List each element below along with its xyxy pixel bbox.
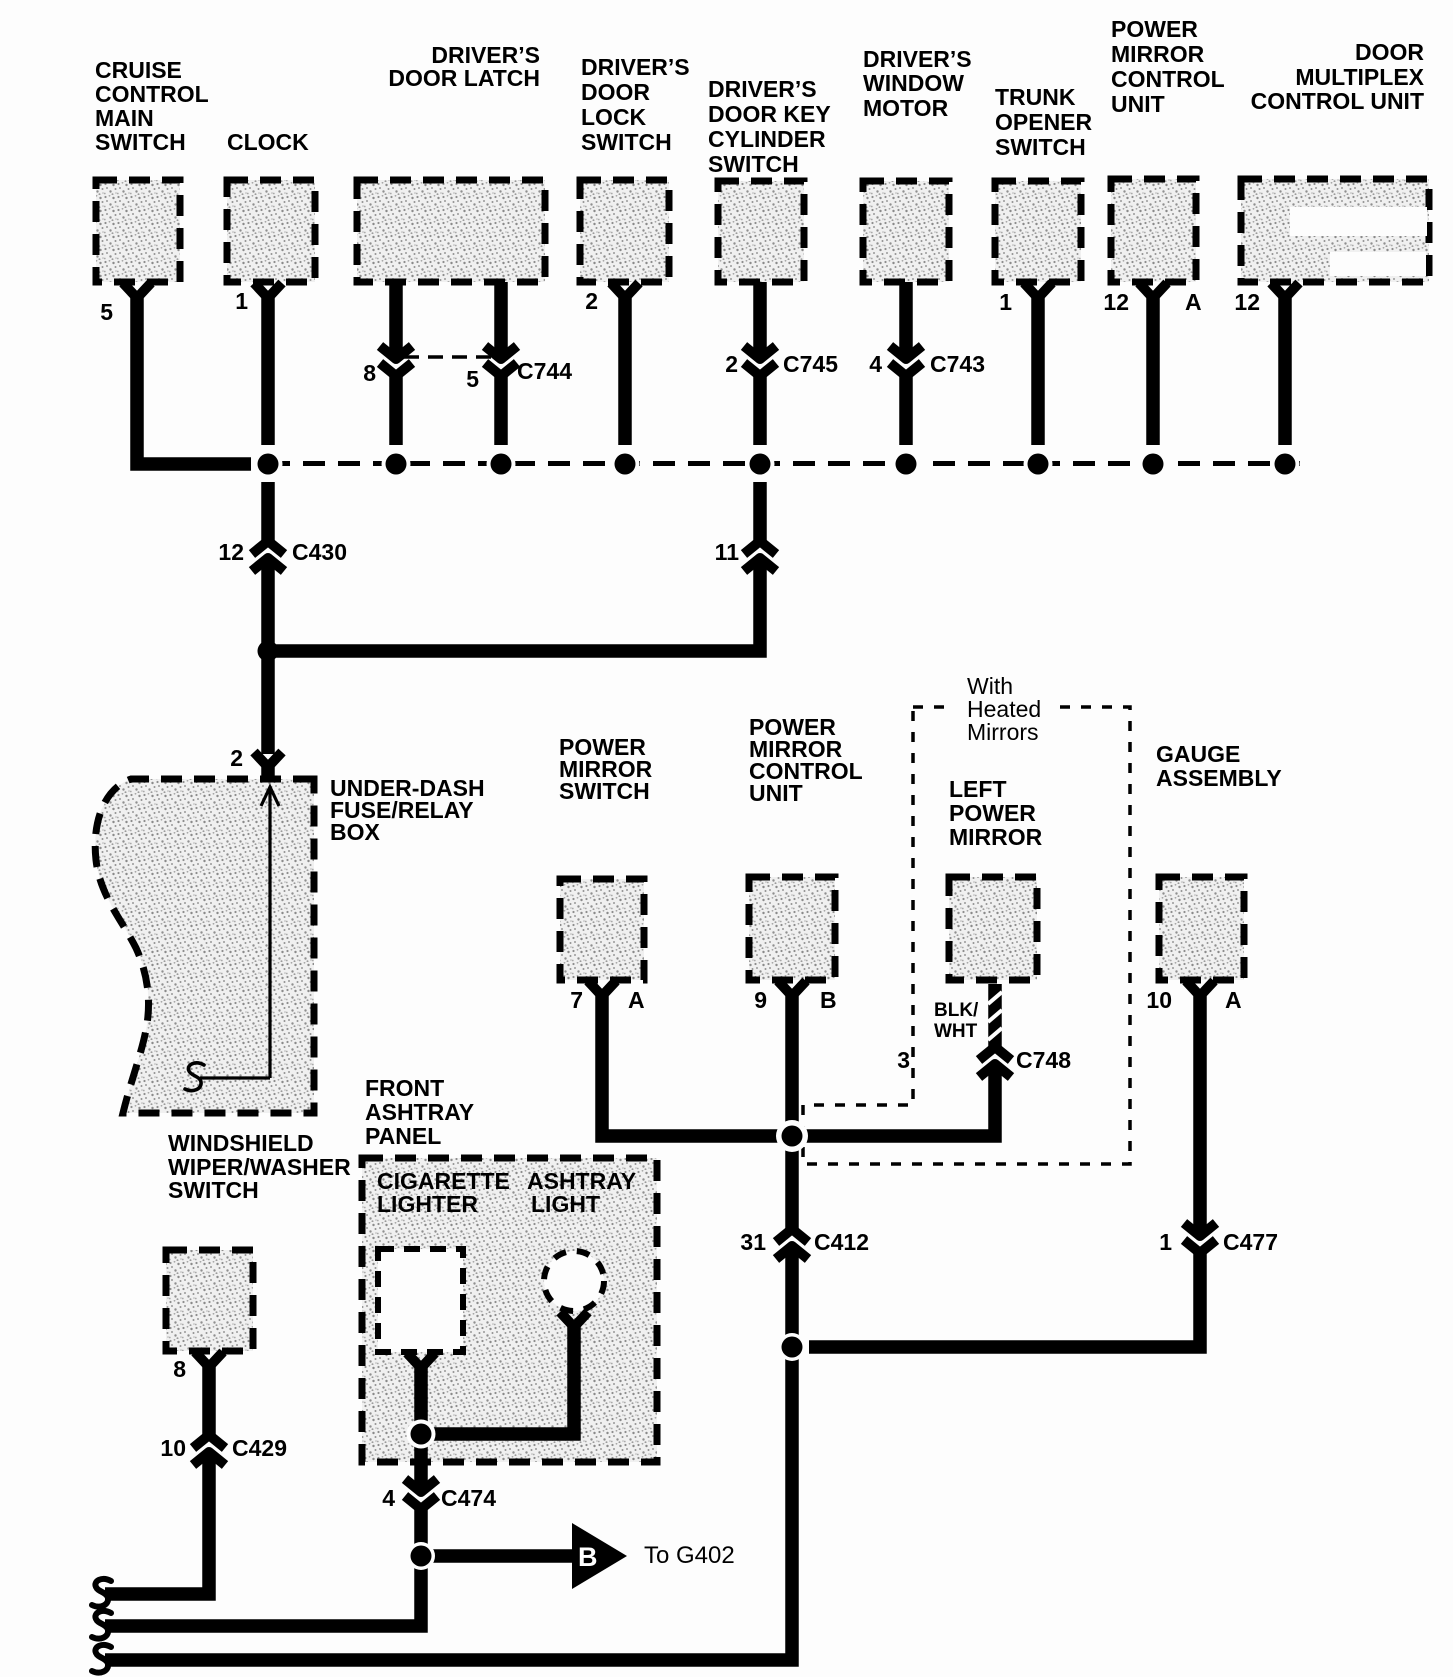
connector C430: [252, 541, 284, 571]
wire: ashtray light down and left to splice: [432, 1325, 574, 1434]
svg-text:LOCK: LOCK: [581, 104, 647, 130]
svg-text:MAIN: MAIN: [95, 105, 154, 131]
pin 7/A power mirror switch fork: [588, 981, 616, 996]
svg-text:A: A: [628, 987, 645, 1013]
svg-text:2: 2: [230, 745, 243, 771]
svg-text:LIGHT: LIGHT: [531, 1191, 600, 1217]
svg-text:C745: C745: [783, 351, 838, 377]
pin 2 door lock fork: [611, 283, 639, 298]
svg-text:WINDSHIELD: WINDSHIELD: [168, 1130, 314, 1156]
svg-text:TRUNK: TRUNK: [995, 84, 1076, 110]
connector C429: [193, 1435, 225, 1465]
ashtray light bulb circle: [544, 1251, 604, 1311]
wire: key cylinder switch to C745: [753, 282, 767, 357]
wire: BLK/WHT from left power mirror to C748: [988, 984, 1002, 1048]
wire: C744 right to bus: [494, 371, 508, 445]
svg-text:Mirrors: Mirrors: [967, 719, 1039, 745]
ground squiggle S line 3: [92, 1645, 111, 1673]
svg-text:MIRROR: MIRROR: [949, 824, 1043, 850]
wire: C412 down to bottom ground line: [105, 1248, 792, 1660]
power mirror switch box: [560, 879, 644, 980]
cruise control main switch box: [96, 180, 180, 282]
node: bus dot trunk: [1024, 450, 1053, 479]
svg-text:WHT: WHT: [934, 1021, 978, 1042]
svg-text:ASHTRAY: ASHTRAY: [365, 1099, 474, 1125]
under-dash fuse/relay box (wavy left edge): [95, 779, 314, 1113]
wire: gauge assembly to C477: [1193, 996, 1207, 1234]
node: bus dot door lock: [611, 450, 640, 479]
power mirror control unit box (top): [1111, 179, 1196, 282]
pin 8 wiper switch fork: [195, 1352, 223, 1367]
svg-text:CLOCK: CLOCK: [227, 129, 309, 155]
svg-text:To G402: To G402: [644, 1542, 735, 1569]
svg-text:12: 12: [218, 539, 244, 565]
wire: window motor to C743: [899, 282, 913, 357]
pin 1 trunk fork: [1024, 283, 1052, 298]
svg-text:A: A: [1225, 987, 1242, 1013]
svg-text:8: 8: [363, 360, 376, 386]
wire: power mirror switch down and right to C748: [602, 996, 995, 1136]
node: bus dot key cylinder: [746, 450, 775, 479]
svg-text:DRIVER’S: DRIVER’S: [708, 76, 817, 102]
wire: ground bus (dashed): [268, 461, 1300, 466]
driver's door latch box: [357, 180, 545, 282]
fuse box internal ground line with arrow: [185, 787, 279, 1091]
svg-text:C743: C743: [930, 351, 985, 377]
connector C743: [890, 346, 922, 376]
svg-text:31: 31: [740, 1229, 766, 1255]
pin 9/B power mirror control fork: [778, 981, 806, 996]
wire: wiper switch to C429: [202, 1365, 216, 1436]
ground squiggle S line 1: [92, 1579, 111, 1607]
node: bus dot latch 5: [487, 450, 516, 479]
left power mirror box: [949, 877, 1037, 980]
svg-text:3: 3: [897, 1047, 910, 1073]
svg-text:4: 4: [382, 1485, 395, 1511]
node: bus dot window motor: [892, 450, 921, 479]
svg-text:1: 1: [235, 288, 248, 314]
svg-text:SWITCH: SWITCH: [581, 129, 672, 155]
svg-text:SWITCH: SWITCH: [708, 151, 799, 177]
svg-text:C474: C474: [441, 1485, 496, 1511]
node: C412 / gauge splice: [778, 1333, 806, 1361]
wire: C745 to connector 11: [753, 371, 767, 445]
svg-text:8: 8: [173, 1356, 186, 1382]
driver's door lock switch box: [580, 180, 669, 282]
svg-text:C748: C748: [1016, 1047, 1071, 1073]
ashtray light fork: [560, 1312, 588, 1327]
wire: cigarette lighter to C474: [414, 1366, 428, 1490]
wire: door multiplex control unit to bus: [1278, 298, 1292, 445]
svg-text:DOOR: DOOR: [581, 79, 650, 105]
driver's window motor box: [863, 181, 949, 282]
svg-text:C477: C477: [1223, 1229, 1278, 1255]
svg-text:12: 12: [1103, 289, 1129, 315]
wire: door latch pin 8 to C744: [389, 282, 403, 357]
svg-text:UNIT: UNIT: [749, 780, 803, 806]
svg-text:B: B: [820, 987, 837, 1013]
node: C474 / arrow B splice: [407, 1542, 435, 1570]
svg-text:CONTROL UNIT: CONTROL UNIT: [1251, 88, 1424, 114]
connector C748: [979, 1047, 1011, 1077]
arrow B to G402: [572, 1523, 627, 1589]
wire: C430 down through junction to fuse box pin: [261, 560, 275, 754]
wire: connector 11 down and left to clock line junction: [268, 560, 760, 651]
driver's door key cylinder switch box: [718, 181, 804, 282]
svg-text:12: 12: [1234, 289, 1260, 315]
svg-text:BOX: BOX: [330, 819, 381, 845]
connector C412: [776, 1229, 808, 1259]
node: bus dot power mirror control: [1139, 450, 1168, 479]
svg-text:DOOR: DOOR: [1355, 39, 1424, 65]
front ashtray panel box: [362, 1158, 657, 1462]
wire: door lock switch to bus: [618, 298, 632, 445]
label with heated mirrors: [952, 673, 1060, 745]
connector C744 pin 5: [485, 346, 517, 376]
svg-text:5: 5: [466, 366, 479, 392]
pin 5 cruise fork: [123, 283, 151, 298]
svg-text:SWITCH: SWITCH: [168, 1177, 259, 1203]
svg-text:DOOR KEY: DOOR KEY: [708, 101, 831, 127]
pin 1 clock fork: [254, 283, 282, 298]
svg-text:POWER: POWER: [1111, 16, 1198, 42]
boundary: With Heated Mirrors dash region: [803, 707, 1130, 1164]
svg-text:C430: C430: [292, 539, 347, 565]
connector C474: [405, 1479, 437, 1509]
wire: power mirror control unit (top) to bus: [1146, 298, 1160, 445]
wire: dashed link between C744 halves: [404, 355, 494, 359]
wire: trunk opener switch to bus: [1031, 298, 1045, 445]
svg-text:7: 7: [570, 987, 583, 1013]
svg-text:LIGHTER: LIGHTER: [377, 1191, 478, 1217]
svg-text:GAUGE: GAUGE: [1156, 741, 1240, 767]
node: bus dot latch 8: [382, 450, 411, 479]
svg-text:C744: C744: [517, 358, 572, 384]
wire: cruise control to bus junction: [137, 298, 251, 464]
svg-text:SWITCH: SWITCH: [95, 129, 186, 155]
ground squiggle S line 2: [92, 1611, 111, 1639]
wire: clock down to C430: [261, 298, 275, 445]
svg-text:SWITCH: SWITCH: [559, 778, 650, 804]
svg-text:SWITCH: SWITCH: [995, 134, 1086, 160]
node: clock line / branch junction: [258, 641, 279, 662]
svg-text:ASSEMBLY: ASSEMBLY: [1156, 765, 1282, 791]
power mirror control unit box (mid): [749, 877, 835, 980]
svg-text:MULTIPLEX: MULTIPLEX: [1295, 64, 1424, 90]
connector 11: [744, 541, 776, 571]
svg-text:11: 11: [715, 539, 740, 565]
svg-text:2: 2: [725, 351, 738, 377]
cigarette lighter box: [378, 1249, 463, 1352]
svg-text:CONTROL: CONTROL: [95, 81, 209, 107]
svg-text:10: 10: [160, 1435, 186, 1461]
svg-text:DRIVER’S: DRIVER’S: [863, 46, 972, 72]
svg-text:POWER: POWER: [949, 800, 1036, 826]
svg-text:1: 1: [1159, 1229, 1172, 1255]
door multiplex control unit box: [1241, 179, 1429, 282]
svg-text:UNIT: UNIT: [1111, 91, 1165, 117]
svg-text:DOOR LATCH: DOOR LATCH: [388, 65, 540, 91]
wire: C474 down to ground line 2: [105, 1504, 421, 1626]
node: bus dot multiplex: [1271, 450, 1300, 479]
svg-text:FRONT: FRONT: [365, 1075, 444, 1101]
svg-text:DRIVER’S: DRIVER’S: [581, 54, 690, 80]
pin 12/A power mirror control fork: [1139, 283, 1167, 298]
wire: C743 to bus: [899, 371, 913, 445]
svg-text:C412: C412: [814, 1229, 869, 1255]
wire: splice to arrow B: [428, 1549, 572, 1563]
svg-text:LEFT: LEFT: [949, 776, 1007, 802]
svg-text:1: 1: [999, 289, 1012, 315]
wire: C744 to bus: [389, 371, 403, 445]
svg-text:BLK/: BLK/: [934, 1000, 979, 1021]
cigarette lighter fork: [407, 1353, 435, 1368]
wire: C477 down and left to splice: [809, 1248, 1200, 1347]
svg-text:B: B: [578, 1542, 598, 1572]
svg-text:CYLINDER: CYLINDER: [708, 126, 826, 152]
wire: door latch pin 5 to C744: [494, 282, 508, 357]
svg-text:MOTOR: MOTOR: [863, 95, 949, 121]
svg-text:OPENER: OPENER: [995, 109, 1093, 135]
connector C744 pin 8: [380, 346, 412, 376]
pin 2 fuse box fork: [254, 752, 282, 767]
pin 10/A gauge fork: [1186, 981, 1214, 996]
node: ashtray splice: [407, 1420, 436, 1449]
svg-text:PANEL: PANEL: [365, 1123, 441, 1149]
node: cruise/clock junction: [254, 450, 283, 479]
svg-text:A: A: [1185, 289, 1202, 315]
wire: power mirror control unit pin 9 to C412: [785, 996, 799, 1230]
connector C745: [744, 346, 776, 376]
trunk opener switch box: [995, 181, 1081, 282]
node: splice power mirror circuit: [776, 1120, 808, 1152]
svg-text:5: 5: [100, 299, 113, 325]
wire: C429 down and left to ground line 1: [105, 1454, 209, 1594]
svg-text:WINDOW: WINDOW: [863, 70, 964, 96]
pin 12 multiplex fork: [1271, 283, 1299, 298]
windshield wiper/washer switch connector box: [166, 1250, 253, 1351]
gauge assembly box: [1159, 877, 1244, 980]
svg-text:9: 9: [754, 987, 767, 1013]
svg-text:MIRROR: MIRROR: [1111, 41, 1205, 67]
svg-text:C429: C429: [232, 1435, 287, 1461]
svg-text:4: 4: [869, 351, 882, 377]
svg-text:10: 10: [1146, 987, 1172, 1013]
svg-text:2: 2: [585, 288, 598, 314]
svg-text:CONTROL: CONTROL: [1111, 66, 1225, 92]
clock box: [227, 180, 315, 282]
connector C477: [1184, 1223, 1216, 1253]
svg-text:CRUISE: CRUISE: [95, 57, 182, 83]
